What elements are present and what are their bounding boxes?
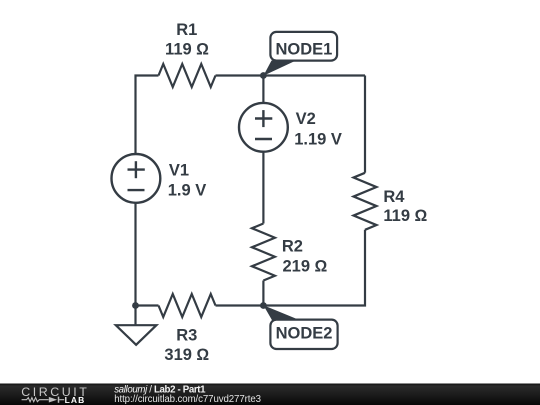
wire R2 bottom to NODE2 (262, 281, 264, 306)
node NODE2 label flag (263, 305, 337, 349)
wire V1 bottom to ground stub (134, 203, 136, 326)
footer logo LAB text (65, 395, 86, 405)
svg-text:1.19 V: 1.19 V (294, 130, 342, 148)
node NODE1 junction dot (260, 72, 267, 79)
wire V2 bottom to R2 top (262, 152, 264, 224)
label R2 (282, 238, 303, 256)
resistor R1 (159, 64, 216, 87)
footer logo resistor zigzag (22, 398, 49, 402)
svg-text:LAB: LAB (65, 395, 86, 405)
voltage source V1 (111, 154, 160, 203)
resistor R2 (252, 224, 275, 281)
wire left rail (top-left corner down to V1 top) (136, 76, 159, 155)
svg-text:R2: R2 (282, 238, 303, 256)
label R1 (176, 21, 197, 39)
value 1.19 V (V2) (294, 130, 342, 148)
value 119 ohm (R1) (165, 41, 209, 59)
svg-text:NODE2: NODE2 (276, 325, 333, 343)
wire NODE1 to V2 top (262, 76, 264, 104)
resistor R4 (354, 173, 377, 230)
label R3 (176, 326, 197, 344)
node NODE1 label flag (263, 32, 337, 76)
wire bottom rail left (junction to R3) (136, 304, 159, 306)
value 219 ohm (R2) (283, 257, 328, 275)
svg-text:119 Ω: 119 Ω (383, 207, 427, 225)
footer url (114, 394, 261, 405)
value 319 ohm (R3) (164, 346, 209, 364)
footer bar (0, 384, 540, 405)
wire bottom rail middle (R3 to NODE2) (216, 304, 264, 306)
node bottom-left junction dot (132, 302, 139, 309)
svg-text:119 Ω: 119 Ω (165, 41, 209, 59)
svg-text:R1: R1 (176, 21, 197, 39)
label V2 (296, 110, 316, 128)
svg-text:NODE1: NODE1 (275, 41, 332, 59)
label V1 (169, 162, 189, 180)
wire top rail (R1 to top-right corner) (216, 74, 366, 76)
svg-text:http://circuitlab.com/c77uvd27: http://circuitlab.com/c77uvd277rte3 (114, 394, 261, 405)
node NODE2 junction dot (260, 302, 267, 309)
svg-text:V1: V1 (169, 162, 189, 180)
svg-text:R3: R3 (176, 326, 197, 344)
voltage source V2 (239, 103, 288, 152)
footer logo diode (49, 397, 64, 403)
wire right rail lower (R4 to bottom rail to NODE2) (263, 230, 365, 306)
footer logo CIRCUIT text (21, 385, 89, 399)
svg-text:319 Ω: 319 Ω (164, 346, 209, 364)
ground (116, 325, 157, 345)
svg-text:219 Ω: 219 Ω (283, 257, 328, 275)
footer title: salloumj / Lab2 - Part1 (114, 385, 206, 396)
svg-text:1.9 V: 1.9 V (168, 182, 207, 200)
label R4 (383, 188, 405, 206)
svg-text:R4: R4 (383, 188, 405, 206)
resistor R3 (159, 294, 216, 317)
wire right rail upper (top-right corner to R4) (364, 76, 366, 173)
value 119 ohm (R4) (383, 207, 427, 225)
value 1.9 V (V1) (168, 182, 207, 200)
svg-text:V2: V2 (296, 110, 316, 128)
